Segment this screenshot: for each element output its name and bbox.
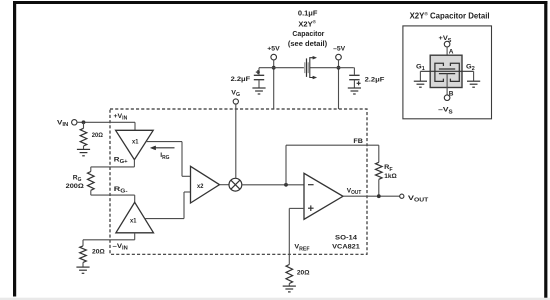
label VREF	[294, 244, 309, 253]
X2Y internal structure square	[430, 55, 462, 87]
node -VS detail	[438, 95, 453, 115]
X2Y plate A	[439, 68, 455, 70]
svg-text:0.1μF: 0.1μF	[298, 10, 318, 17]
label SO-14	[335, 235, 357, 242]
svg-text:–5V: –5V	[333, 45, 345, 52]
wire x2 to multiplier	[220, 184, 230, 186]
wire x1 bottom output to x2	[145, 192, 191, 219]
wire G1-G2 through line	[420, 70, 473, 72]
svg-text:+5V: +5V	[267, 45, 280, 52]
label +VIN	[114, 113, 128, 122]
node VIN terminal	[57, 120, 77, 129]
node VG terminal	[231, 89, 240, 104]
label B	[449, 90, 454, 97]
label VCA821	[332, 243, 360, 250]
svg-text:Capacitor: Capacitor	[292, 31, 324, 38]
wire +5V supply drop	[273, 60, 275, 109]
wire supply rail right	[310, 67, 354, 69]
ground below left 2.2uF	[252, 88, 265, 94]
wire A electrode	[446, 47, 448, 69]
resistor RF 1kohm	[376, 145, 383, 196]
label RG+	[114, 156, 128, 165]
svg-text:20Ω: 20Ω	[92, 132, 104, 139]
resistor RG 200ohm	[88, 167, 95, 195]
junction +5V rail	[272, 66, 276, 70]
svg-text:1kΩ: 1kΩ	[384, 173, 397, 180]
label G1	[416, 63, 425, 72]
buffer x1 top	[116, 130, 154, 159]
amplifier x2	[191, 166, 220, 203]
label FB	[353, 138, 363, 145]
X2Y G2 electrode ring right-top	[450, 63, 459, 81]
node VOUT terminal	[400, 194, 429, 204]
wire RG- to x1 bottom apex	[91, 195, 135, 202]
label RF	[384, 164, 393, 173]
wire G1 to ground	[419, 71, 421, 81]
junction -5V rail	[337, 66, 341, 70]
label G2	[466, 63, 475, 72]
svg-text:2.2μF: 2.2μF	[231, 76, 251, 83]
node -5V terminal	[333, 45, 345, 59]
label 200ohm	[66, 183, 85, 190]
svg-text:VCA821: VCA821	[332, 243, 360, 250]
X2Y plate B	[439, 73, 455, 75]
svg-text:200Ω: 200Ω	[66, 183, 85, 190]
resistor 20ohm input bottom	[80, 240, 106, 267]
resistor 20ohm VREF	[286, 265, 310, 287]
svg-text:20Ω: 20Ω	[297, 269, 310, 276]
VCA821 dashed boundary box	[110, 109, 367, 254]
multiplier node	[229, 178, 242, 191]
node +5V terminal	[267, 45, 280, 59]
label A	[449, 49, 454, 56]
op-amp output buffer	[304, 173, 343, 219]
svg-text:(see detail): (see detail)	[288, 41, 327, 48]
label 1kohm	[384, 173, 397, 180]
page bottom edge strip	[0, 298, 550, 300]
label -VIN	[113, 243, 129, 252]
ground below top 20ohm	[77, 149, 90, 155]
wire op-amp non-inverting input	[289, 207, 304, 209]
junction VIN/20ohm	[82, 120, 86, 124]
label X2Y Capacitor Detail title	[410, 10, 490, 20]
ground G1	[414, 81, 427, 87]
capacitor 2.2uF left	[231, 68, 265, 88]
junction output/RF	[377, 194, 381, 198]
svg-text:x1: x1	[132, 139, 139, 146]
wire x1 apex to RG+	[91, 160, 135, 167]
wire -5V supply drop	[338, 60, 340, 109]
wire x1 top output to x2	[146, 142, 191, 177]
svg-text:X2Y® Capacitor Detail: X2Y® Capacitor Detail	[410, 10, 490, 20]
label RG-	[114, 186, 128, 195]
capacitor X2Y 0.1uF symbol	[305, 56, 317, 79]
current arrow IRG	[150, 146, 174, 161]
ground below bottom 20ohm	[76, 267, 89, 273]
wire multiplier to op-amp inverting input	[242, 184, 304, 186]
resistor 20ohm input top	[80, 122, 103, 149]
svg-text:x2: x2	[197, 183, 204, 190]
ground below right 2.2uF	[348, 88, 361, 94]
capacitor 2.2uF right	[349, 68, 384, 88]
ground G2	[467, 81, 480, 87]
svg-text:2.2μF: 2.2μF	[365, 77, 385, 84]
node +VS detail	[439, 35, 453, 47]
wire B electrode	[446, 74, 448, 95]
wire x1 bottom to -VIN	[83, 233, 135, 240]
wire FB feedback	[286, 145, 379, 185]
page border frame right	[544, 1, 547, 300]
label 0.1uF X2Y Capacitor see detail	[288, 10, 327, 47]
wire supply rail left	[259, 67, 304, 69]
buffer x1 bottom	[116, 202, 154, 233]
page border frame top	[13, 1, 547, 4]
page border frame left	[13, 1, 16, 297]
label VOUT internal	[347, 188, 362, 197]
wire VIN to +VIN input	[77, 122, 135, 130]
X2Y capacitor detail outline box	[403, 26, 492, 119]
svg-text:x1: x1	[130, 217, 137, 224]
X2Y G1 electrode ring left-top	[435, 63, 444, 81]
svg-text:20Ω: 20Ω	[92, 248, 105, 255]
svg-text:SO-14: SO-14	[335, 235, 357, 242]
wire VG to multiplier	[235, 104, 237, 178]
label RG	[73, 175, 82, 184]
wire op-amp output	[343, 195, 400, 197]
ground below VREF 20ohm	[283, 286, 296, 292]
junction FB tap	[284, 183, 288, 187]
svg-text:FB: FB	[353, 138, 363, 145]
wire VREF	[288, 208, 290, 264]
wire G2 to ground	[473, 71, 475, 81]
